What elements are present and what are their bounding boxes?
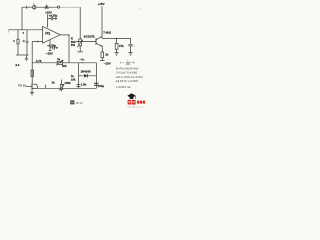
ground below R C bar [25,55,29,61]
svg-text:TIS 58: TIS 58 [18,83,26,87]
wire non-inverting drop vertical [31,42,33,84]
junction tick below corner [23,32,25,34]
wire V- supply stub [49,48,52,51]
node terminal circle on top wire [57,6,59,8]
svg-text:C: C [23,39,25,43]
capacitor C1 branch wire [26,30,28,55]
wire left vertical from top wire to input rail [21,7,23,30]
transistor Q2 FET bar [31,83,33,89]
resistor R3 emitter body [101,52,104,58]
capacitor C4 plates [128,44,132,46]
resistor R4 47k branch wire [116,38,118,52]
supply bar -15V emitter [100,60,105,62]
wire diode loop right vertical [95,63,97,89]
svg-text:·R₂: ·R₂ [132,62,135,64]
svg-text:C: C [134,46,136,48]
svg-text:f₀=10kHz osc.: f₀=10kHz osc. [116,85,132,89]
faint smudge top right [140,8,142,10]
logo red char block 2 [132,100,136,105]
potentiometer RP bottom bar [77,51,82,53]
capacitor C3 0.33u decoupling wire and plates [50,46,56,50]
wire base of Q1 [76,41,96,43]
svg-text:1.5k: 1.5k [81,83,87,87]
wire op-amp V+ pin [47,14,49,27]
wire bottom bar joining R1 C1 [16,54,29,56]
resistor R4 body [115,43,118,49]
wire non-inverting input [32,41,42,43]
potentiometer RP2 wiper arrow [59,84,64,90]
node on collector rail [116,38,117,39]
svg-text:f₀ =: f₀ = [120,61,125,65]
wire output vertical to lower rail [68,35,70,63]
meter M1 circle on top wire [33,6,36,9]
potentiometer RT wiper arrow [56,60,63,65]
svg-text:4.7k: 4.7k [36,59,42,63]
meter M1 bar [33,5,35,10]
wire emitter vertical [101,47,103,61]
svg-text:10k: 10k [71,78,76,82]
op-amp U1 741 triangle [43,26,61,43]
wire bottom rail [32,87,96,89]
resistor R1 body [17,39,19,44]
wire lower rail [32,62,96,64]
svg-text:F: F [33,3,35,5]
wire input rail horizontal [9,29,43,31]
svg-text:741: 741 [45,32,51,36]
resistor R2 body on drop [31,70,33,77]
capacitor tick on top wire [26,6,28,9]
ground below Q2 [30,90,34,96]
capacitor C1 plates [26,41,29,43]
svg-text:C=0.1µF, Rₛ=10kΩ: C=0.1µF, Rₛ=10kΩ [116,71,137,75]
svg-text:R: R [13,39,15,43]
wire op-amp V- pin [49,40,51,48]
svg-text:R₁: R₁ [71,74,75,78]
wire top feedback horizontal [22,6,60,8]
svg-text:18-11: 18-11 [75,101,83,105]
resistor R1 branch wire [17,30,19,55]
capacitor C4 branch wire [130,38,132,52]
potentiometer RP vertical wire from top feedback [79,7,81,52]
node output junction [68,34,69,35]
wire diode loop bottom [78,75,96,77]
logo red small chars [137,101,139,104]
wire +15V vertical to collector [101,6,103,38]
capacitor C5 100u plates on right vertical [94,83,99,85]
svg-text:−V₀: −V₀ [80,57,85,61]
svg-text:100k: 100k [64,81,71,85]
svg-text:adj.RP for f₀=10kHz.: adj.RP for f₀=10kHz. [116,79,139,83]
svg-text:50k: 50k [62,64,67,68]
svg-text:−15V: −15V [104,61,111,65]
potentiometer RT body on lower rail [57,61,62,64]
capacitor C3 arrow end [56,47,58,49]
svg-text:Rₜ: Rₜ [57,57,60,61]
svg-text:with f₀≈1kHz out, R=1M: with f₀≈1kHz out, R=1M [116,75,143,79]
elecfans watermark logo [127,93,145,108]
svg-text:5%: 5% [71,43,76,47]
capacitor C2 arrow end [55,17,57,20]
svg-text:BC107B: BC107B [84,35,95,39]
wire collector horizontal rail [102,37,131,39]
thermal switch S1 triangle on top wire [44,4,49,8]
ground below C4 [129,53,133,56]
transistor Q2 drain lead [32,84,38,88]
annotation formula f0 [116,61,143,89]
transistor Q1 emitter lead with arrow [96,43,102,46]
svg-text:7.4kΩ: 7.4kΩ [103,30,111,34]
logo red char block 1 [128,100,132,105]
input terminal marks [16,64,18,66]
svg-text:1k: 1k [52,80,56,84]
svg-text:4RC: 4RC [126,64,131,66]
transistor Q2 source lead [32,87,36,89]
transistor Q1 base bar [95,38,97,44]
potentiometer RP wiper arrow [77,40,82,47]
wire op-amp output [60,34,69,36]
potentiometer RP2 vertical wire [61,80,63,92]
potentiometer RP2 body [60,85,62,90]
svg-text:+0.33µ: +0.33µ [47,44,56,48]
svg-text:−15V: −15V [46,51,53,55]
svg-text:www.elecfans.com: www.elecfans.com [128,107,144,109]
diode D1 symbol [84,74,87,78]
capacitor C2 0.33u decoupling wire and plates [48,17,56,21]
logo mortarboard cap [127,93,136,98]
svg-text:1k: 1k [105,53,109,57]
wire Q2 gate from left [26,86,32,88]
ground below R4 [115,53,119,56]
terminal stub left end of rail [8,30,10,33]
svg-text:100µ: 100µ [98,84,105,88]
svg-text:1N4148: 1N4148 [81,69,91,73]
svg-text:47k: 47k [119,44,124,48]
stub tick on bottom rail [44,85,46,89]
capacitor C6 plates on left loop vertical [77,85,81,87]
potentiometer RP body [79,39,82,46]
wire diode loop left vertical [77,63,79,89]
transistor Q1 collector lead [96,36,102,40]
svg-text:R₁=R₂=1MΩ,R=2kΩ: R₁=R₂=1MΩ,R=2kΩ [116,67,139,71]
svg-text:+15V: +15V [98,2,105,6]
wire top feedback faint right segment [60,6,80,8]
arrow mark on non-inverting wire [36,41,38,43]
caption block 图 18-11 [70,100,83,105]
node on lower rail [82,62,83,63]
